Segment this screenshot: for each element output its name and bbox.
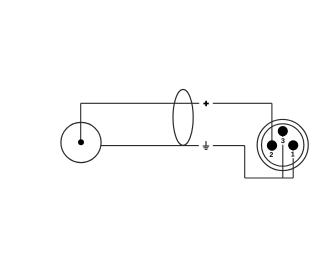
label for pin 3 [280, 137, 285, 145]
cable jacket ellipse [173, 90, 193, 146]
XLR outer shell [257, 119, 308, 170]
wire: top rail left segment (to plus sign) [81, 102, 200, 104]
wire: riser to XLR pin 3 [282, 131, 284, 178]
XLR pin 2 [267, 140, 277, 150]
wire: bottom run under XLR [245, 177, 294, 179]
XLR insert circle [262, 124, 304, 166]
wire: bottom rail from ground symbol to corner [213, 145, 245, 147]
RCA tip contact [78, 139, 84, 145]
plus symbol (hot conductor) [203, 101, 208, 106]
wire: bottom rail from RCA shield to ground symbol [101, 145, 199, 147]
XLR pin 1 [288, 140, 298, 150]
RCA connector body [61, 122, 101, 162]
label for pin 1 [291, 151, 296, 158]
label for pin 2 [270, 152, 273, 157]
wire: riser to XLR pin 1 [292, 145, 294, 178]
wire: RCA tip up to top rail [80, 103, 82, 142]
wire: drop from top rail into XLR pin 2 [271, 103, 273, 145]
wire: top rail right segment (plus sign to corner) [213, 102, 272, 104]
ground symbol (shield) [203, 141, 210, 149]
wire: drop at shield corner [244, 146, 246, 178]
XLR pin 3 [278, 126, 288, 136]
